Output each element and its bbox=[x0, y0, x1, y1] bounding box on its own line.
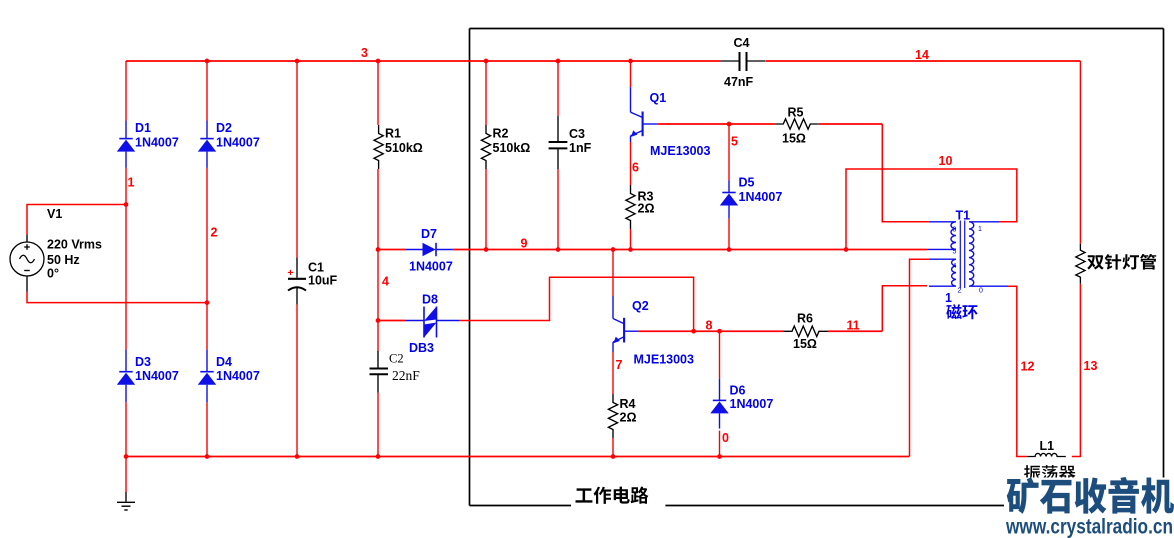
transistor Q2 bbox=[612, 296, 614, 319]
diode D1 bbox=[125, 121, 127, 139]
wire net4 column bbox=[377, 169, 379, 351]
wire D6 top stub bbox=[719, 331, 721, 379]
resistor R2 bbox=[481, 125, 490, 169]
wire R5 right bbox=[819, 123, 882, 125]
svg-text:D3: D3 bbox=[135, 355, 151, 369]
wire R5 to T1 pin top bbox=[882, 124, 929, 222]
wire net8 R6 to corner bbox=[828, 330, 883, 332]
svg-text:R4: R4 bbox=[620, 397, 636, 411]
node net5 junction bbox=[727, 122, 732, 127]
wire C2 column lower bbox=[377, 393, 379, 457]
svg-text:10: 10 bbox=[939, 154, 953, 168]
svg-text:510kΩ: 510kΩ bbox=[385, 141, 423, 155]
wire net11 up-right to T1 pin2 bbox=[882, 286, 927, 331]
wire D6 bottom stub bbox=[719, 431, 721, 457]
svg-text:DB3: DB3 bbox=[409, 341, 434, 355]
wire L1 right to lamp bbox=[1072, 284, 1081, 457]
svg-text:13: 13 bbox=[1084, 359, 1098, 373]
lamp tube resistor symbol bbox=[1076, 244, 1085, 284]
diac D8 DB3 bbox=[406, 320, 425, 322]
transformer T1 primary winding B bbox=[929, 259, 956, 286]
wire net2 column middle bbox=[206, 168, 208, 350]
svg-text:1: 1 bbox=[945, 291, 952, 305]
capacitor C2 bbox=[377, 351, 379, 368]
svg-text:4: 4 bbox=[382, 275, 389, 289]
svg-text:R5: R5 bbox=[788, 106, 804, 120]
diode D7 bbox=[405, 249, 422, 251]
svg-text:50 Hz: 50 Hz bbox=[47, 253, 80, 267]
svg-text:C1: C1 bbox=[308, 261, 324, 275]
diode D2 bbox=[206, 121, 208, 139]
svg-text:1N4007: 1N4007 bbox=[135, 135, 179, 149]
label work circuit title bbox=[576, 487, 649, 504]
svg-text:C3: C3 bbox=[569, 127, 585, 141]
resistor R5 bbox=[775, 119, 819, 129]
svg-text:3: 3 bbox=[361, 46, 368, 60]
transformer T1 secondary winding bbox=[969, 222, 1008, 286]
transformer T1 primary winding A bbox=[927, 222, 956, 250]
wire C3 column top bbox=[557, 61, 559, 116]
svg-text:1N4007: 1N4007 bbox=[135, 369, 179, 383]
svg-text:Q1: Q1 bbox=[650, 91, 667, 105]
svg-text:1: 1 bbox=[978, 226, 982, 233]
capacitor C1 bbox=[296, 258, 298, 278]
resistor R3 bbox=[626, 185, 635, 229]
wire C3 column bottom bbox=[557, 169, 559, 249]
resistor R1 bbox=[374, 125, 383, 169]
svg-text:47nF: 47nF bbox=[724, 75, 754, 89]
svg-text:R1: R1 bbox=[385, 127, 401, 141]
wire D8 to Q2 base jog bbox=[459, 277, 694, 331]
wire R3 bottom stub bbox=[630, 229, 632, 250]
wire net9 D7 anode stub bbox=[378, 249, 405, 251]
wire Q1 collector stub bbox=[630, 61, 632, 87]
wire net7 Q2 emitter to R4 bbox=[612, 352, 614, 394]
node net3 junctions bbox=[205, 59, 210, 64]
wire net3 top rail left of C4 bbox=[126, 60, 720, 62]
wire C1 column upper bbox=[296, 61, 298, 258]
inductor L1 bbox=[1027, 453, 1066, 456]
capacitor C3 bbox=[557, 116, 559, 142]
svg-text:1N4007: 1N4007 bbox=[216, 135, 260, 149]
svg-text:9: 9 bbox=[521, 237, 528, 251]
wire net4 D8 stub bbox=[378, 320, 406, 322]
wire R2 column bottom bbox=[485, 169, 487, 250]
node net0 junctions bbox=[124, 454, 129, 459]
svg-text:510kΩ: 510kΩ bbox=[493, 141, 531, 155]
wire net2 column lower bbox=[206, 402, 208, 456]
svg-text:1N4007: 1N4007 bbox=[730, 397, 774, 411]
wire net0 bottom rail bbox=[126, 456, 910, 458]
node net4 junctions bbox=[376, 247, 381, 252]
svg-text:T1: T1 bbox=[956, 209, 971, 223]
svg-text:12: 12 bbox=[1021, 360, 1035, 374]
svg-text:2Ω: 2Ω bbox=[620, 411, 637, 425]
svg-text:R2: R2 bbox=[493, 127, 509, 141]
wire net9 rail bbox=[453, 249, 927, 251]
label zhenliuqi bbox=[1024, 465, 1076, 480]
svg-text:1: 1 bbox=[128, 176, 135, 190]
svg-text:L1: L1 bbox=[1040, 439, 1055, 453]
wire net10 loop bbox=[846, 169, 1017, 250]
svg-text:7: 7 bbox=[616, 358, 623, 372]
svg-text:220 Vrms: 220 Vrms bbox=[47, 238, 102, 252]
svg-text:0: 0 bbox=[722, 431, 729, 445]
wire R4 bottom stub bbox=[612, 438, 614, 457]
wire T1 sec bottom to net12 bbox=[1008, 286, 1027, 456]
svg-text:2: 2 bbox=[958, 288, 962, 295]
diode D4 bbox=[206, 350, 208, 372]
svg-text:4: 4 bbox=[953, 263, 957, 270]
svg-text:22nF: 22nF bbox=[392, 368, 420, 383]
wire T1 pin3 to ground rail bbox=[910, 259, 929, 456]
node net1 junction bbox=[124, 202, 129, 207]
svg-text:R6: R6 bbox=[797, 312, 813, 326]
svg-text:V1: V1 bbox=[47, 207, 62, 221]
wire D5 bottom stub bbox=[728, 218, 730, 249]
svg-text:D5: D5 bbox=[739, 176, 755, 190]
wire R1 column top bbox=[377, 61, 379, 125]
transistor Q1 bbox=[630, 87, 632, 112]
svg-text:D6: D6 bbox=[730, 384, 746, 398]
node net8 junctions bbox=[691, 329, 696, 334]
svg-text:11: 11 bbox=[847, 319, 860, 333]
svg-text:D4: D4 bbox=[216, 355, 232, 369]
svg-text:D1: D1 bbox=[135, 121, 151, 135]
svg-text:5: 5 bbox=[953, 249, 957, 256]
svg-text:Q2: Q2 bbox=[632, 299, 649, 313]
svg-text:15Ω: 15Ω bbox=[793, 337, 817, 351]
wire net14 top rail right of C4 bbox=[766, 60, 1080, 62]
label lamp bbox=[1087, 254, 1156, 270]
svg-text:MJE13003: MJE13003 bbox=[634, 353, 695, 367]
watermark background bbox=[1004, 478, 1174, 538]
svg-text:15Ω: 15Ω bbox=[782, 132, 806, 146]
ground bbox=[125, 492, 127, 502]
wire net2 column upper bbox=[206, 61, 208, 121]
wire net1 column middle bbox=[125, 168, 127, 350]
svg-text:0°: 0° bbox=[47, 267, 59, 281]
wire net8 bbox=[638, 330, 783, 332]
wire R2 column top bbox=[485, 61, 487, 125]
svg-text:10uF: 10uF bbox=[308, 274, 338, 288]
svg-text:C4: C4 bbox=[734, 36, 750, 50]
svg-text:1N4007: 1N4007 bbox=[409, 260, 453, 274]
svg-text:C2: C2 bbox=[389, 352, 404, 366]
resistor R6 bbox=[784, 326, 828, 336]
svg-text:5: 5 bbox=[731, 134, 738, 148]
watermark kuangshi shouyinji bbox=[1007, 477, 1174, 514]
wire C1 column lower bbox=[296, 304, 298, 456]
svg-text:14: 14 bbox=[915, 48, 929, 62]
svg-text:3: 3 bbox=[953, 227, 957, 234]
svg-text:1N4007: 1N4007 bbox=[216, 369, 260, 383]
wire V1 bottom bbox=[27, 292, 207, 303]
wire ground stem bbox=[125, 457, 127, 493]
svg-text:2Ω: 2Ω bbox=[638, 202, 655, 216]
diode D6 bbox=[719, 379, 721, 401]
wire net6 Q1 emitter to R3 bbox=[630, 142, 632, 185]
svg-text:0: 0 bbox=[979, 288, 983, 295]
svg-text:D7: D7 bbox=[421, 227, 437, 241]
svg-text:D8: D8 bbox=[422, 293, 438, 307]
wire net1 column upper bbox=[125, 61, 127, 121]
wire net5 Q1 base to R5 bbox=[657, 123, 775, 125]
svg-text:1nF: 1nF bbox=[569, 141, 592, 155]
label T1 cihuan bbox=[946, 304, 977, 319]
svg-text:1N4007: 1N4007 bbox=[739, 190, 783, 204]
node net9 junctions bbox=[484, 247, 489, 252]
svg-text:+: + bbox=[287, 267, 293, 279]
node net2 junction bbox=[205, 300, 210, 305]
AC source V1 symbol bbox=[26, 234, 28, 242]
diode D3 bbox=[125, 350, 127, 372]
svg-text:2: 2 bbox=[211, 226, 218, 240]
svg-text:8: 8 bbox=[706, 319, 713, 333]
wire V1 top bbox=[27, 205, 126, 235]
svg-text:D2: D2 bbox=[216, 121, 232, 135]
svg-text:MJE13003: MJE13003 bbox=[650, 144, 711, 158]
diode D5 bbox=[728, 180, 730, 192]
wire D5 top stub bbox=[728, 124, 730, 180]
svg-text:6: 6 bbox=[632, 161, 639, 175]
transformer T1 core bbox=[959, 221, 961, 289]
capacitor C4 bbox=[720, 60, 739, 62]
svg-text:www.crystalradio.cn: www.crystalradio.cn bbox=[1005, 516, 1173, 538]
wire net1 column lower bbox=[125, 402, 127, 456]
wire Q2 collector to net9 bbox=[612, 250, 614, 297]
wire net14 lamp column down bbox=[1079, 61, 1081, 244]
work-circuit box outline bbox=[470, 28, 1164, 30]
resistor R4 bbox=[608, 394, 617, 438]
